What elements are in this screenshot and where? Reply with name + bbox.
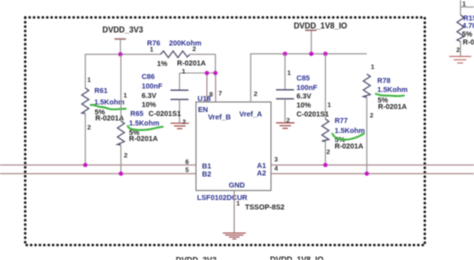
- bus wire B1 (left, y=165): [0, 164, 196, 166]
- capacitor C86: [142, 69, 189, 127]
- net label DVDD_1V8_IO (bottom, clipped): [270, 256, 324, 260]
- junction dot C85: [283, 52, 287, 56]
- resistor R61: [82, 77, 125, 165]
- ground under R15: [449, 56, 471, 63]
- svg-text:C86: C86: [142, 72, 155, 81]
- svg-text:1: 1: [287, 70, 291, 77]
- ground under C86: [171, 123, 190, 129]
- svg-text:A2: A2: [257, 169, 266, 178]
- wire pin8 stub: [206, 73, 208, 102]
- green annotation R61: [90, 105, 127, 110]
- bus wire A1 (right, y=165): [271, 164, 474, 166]
- resistor R77: [322, 54, 365, 165]
- power symbol DVDD_1V8_IO: [294, 22, 348, 54]
- svg-text:DVDD_1V8_IO: DVDD_1V8_IO: [270, 256, 324, 260]
- junction dot R78/A2: [365, 171, 369, 175]
- green annotation R78: [375, 94, 405, 96]
- junction dot DVDD_1V8_IO: [309, 52, 313, 56]
- junction dot pin8: [205, 71, 209, 75]
- wire EN node (R76 pin2 down to pins 8/7 and C86): [180, 54, 216, 73]
- dashed page border: [25, 17, 425, 245]
- svg-text:2: 2: [254, 91, 258, 98]
- svg-text:2: 2: [192, 46, 196, 53]
- svg-text:C-0201S1: C-0201S1: [297, 110, 329, 119]
- wire DVDD_3V3 rail: [85, 54, 215, 88]
- green annotation R65: [128, 125, 164, 130]
- junction dot R61/B1: [83, 163, 87, 167]
- svg-text:TSSOP-8S2: TSSOP-8S2: [245, 202, 285, 211]
- svg-text:1: 1: [327, 102, 331, 109]
- svg-text:6.3V: 6.3V: [297, 92, 312, 101]
- svg-text:R78: R78: [377, 76, 390, 85]
- svg-text:6.3V: 6.3V: [142, 91, 157, 100]
- ground under U18 pin 1: [223, 233, 246, 239]
- junction dot R77/A1: [323, 163, 327, 167]
- svg-text:1: 1: [236, 200, 240, 207]
- svg-text:1: 1: [150, 47, 154, 54]
- svg-text:10%: 10%: [297, 101, 312, 110]
- svg-text:10%: 10%: [142, 100, 157, 109]
- svg-text:B2: B2: [202, 170, 211, 179]
- power symbol DVDD_3V3: [102, 26, 143, 55]
- svg-text:2: 2: [87, 124, 91, 131]
- svg-text:2: 2: [124, 153, 128, 160]
- svg-text:R77: R77: [335, 116, 348, 125]
- svg-text:8: 8: [209, 91, 213, 98]
- svg-text:5: 5: [185, 167, 189, 174]
- bus wire B2 (left, y=173.6): [0, 173, 196, 175]
- svg-text:6: 6: [185, 159, 189, 166]
- svg-text:R61: R61: [94, 86, 107, 95]
- svg-text:C-0201S1: C-0201S1: [149, 109, 181, 118]
- svg-text:1.5Kohm: 1.5Kohm: [129, 118, 159, 127]
- svg-text:3: 3: [274, 157, 278, 164]
- svg-text:R-02: R-02: [463, 38, 474, 47]
- svg-text:R-0201A: R-0201A: [129, 134, 158, 143]
- svg-text:2: 2: [370, 113, 374, 120]
- svg-text:7: 7: [218, 90, 222, 97]
- svg-text:DVDD_3V3: DVDD_3V3: [176, 256, 217, 260]
- junction dot DVDD_3V3: [118, 52, 122, 56]
- op IC U18 LSF0102DCUR box: [185, 90, 284, 211]
- svg-text:1.5Kohm: 1.5Kohm: [377, 85, 407, 94]
- svg-text:R-0201A: R-0201A: [95, 114, 124, 123]
- wire GND pin 1 stub: [234, 191, 240, 233]
- svg-text:GND: GND: [229, 180, 245, 189]
- svg-text:1%: 1%: [157, 59, 168, 68]
- svg-text:2: 2: [456, 47, 460, 54]
- svg-text:1: 1: [462, 1, 466, 8]
- svg-text:R-0201A: R-0201A: [335, 142, 364, 151]
- net label DVDD_3V3 (bottom, clipped): [176, 256, 217, 260]
- svg-text:2: 2: [326, 149, 330, 156]
- svg-text:Vref_A: Vref_A: [239, 109, 262, 118]
- resistor R78: [363, 64, 407, 174]
- svg-text:R65: R65: [130, 109, 143, 118]
- wire DVDD_1V8_IO rail: [251, 54, 367, 102]
- wire pin7 stub: [215, 73, 217, 102]
- resistor R65: [117, 54, 159, 173]
- svg-text:1: 1: [87, 77, 91, 84]
- svg-text:C85: C85: [297, 74, 310, 83]
- svg-text:EN: EN: [198, 105, 208, 114]
- svg-text:DVDD_3V3: DVDD_3V3: [102, 26, 143, 35]
- junction dot R77 top: [323, 52, 327, 56]
- bus wire A2 (right, y=173.6): [271, 173, 474, 175]
- svg-text:200Kohm: 200Kohm: [169, 38, 201, 47]
- junction dot pin7: [213, 71, 217, 75]
- capacitor C85: [276, 54, 329, 125]
- junction dot R65/B2: [119, 171, 123, 175]
- svg-text:Vref_B: Vref_B: [208, 112, 231, 121]
- svg-text:1: 1: [182, 69, 186, 76]
- svg-text:1.5Kohm: 1.5Kohm: [94, 97, 124, 106]
- resistor R15 (outside border, top right): [456, 0, 474, 56]
- svg-text:R-0201A: R-0201A: [177, 58, 206, 67]
- svg-text:4: 4: [274, 165, 278, 172]
- resistor R76 (200Kohm on rail): [147, 38, 206, 67]
- svg-text:R-0201A: R-0201A: [378, 102, 407, 111]
- green annotation R77: [332, 133, 365, 140]
- svg-text:DVDD_1V8_IO: DVDD_1V8_IO: [294, 22, 348, 31]
- svg-text:100nF: 100nF: [142, 82, 163, 91]
- svg-text:1: 1: [371, 64, 375, 71]
- svg-text:LSF0102DCUR: LSF0102DCUR: [197, 193, 248, 202]
- svg-text:1.5Kohm: 1.5Kohm: [335, 126, 365, 135]
- svg-text:1: 1: [123, 92, 127, 99]
- ground under C85: [276, 123, 295, 128]
